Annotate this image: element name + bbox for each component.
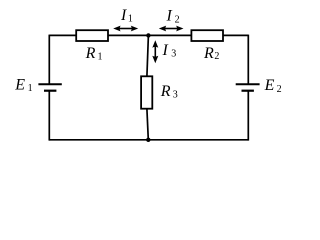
- node A (top center junction): [146, 33, 150, 37]
- svg-text:I: I: [120, 7, 127, 24]
- current arrow I3 (double-headed, vertical, center branch): [152, 40, 158, 63]
- node B (bottom center junction): [146, 138, 150, 142]
- wire: top side, center node to R2: [149, 34, 192, 36]
- svg-text:R: R: [203, 45, 214, 62]
- wire: center branch, node to R3: [147, 35, 149, 76]
- resistor R2: [191, 30, 223, 41]
- svg-text:I: I: [162, 42, 169, 59]
- battery E2 short plate: [242, 90, 254, 92]
- wire: left side, upper segment (corner to E1 plate): [48, 35, 50, 85]
- svg-text:3: 3: [171, 48, 176, 59]
- wire: right side, lower segment (E2 plate to bottom corner): [247, 91, 249, 141]
- svg-text:2: 2: [277, 84, 282, 95]
- svg-text:1: 1: [28, 83, 33, 94]
- wire: left side, lower segment (E1 plate to bottom corner): [48, 91, 50, 141]
- svg-text:I: I: [166, 8, 173, 25]
- svg-text:1: 1: [128, 14, 133, 25]
- wire: top side, R1 to center node: [108, 34, 149, 36]
- current arrow I2 (double-headed, above right of node): [159, 26, 184, 32]
- svg-text:R: R: [160, 83, 171, 100]
- wire: bottom side, left segment (corner to bottom node): [49, 139, 148, 141]
- svg-text:2: 2: [214, 51, 219, 62]
- battery E2 long plate: [236, 83, 260, 85]
- resistor R1: [76, 30, 108, 41]
- wire: right side, upper segment (corner to E2 plate): [247, 35, 249, 85]
- current arrow I1 (double-headed, above left of node): [113, 26, 138, 32]
- svg-text:E: E: [264, 77, 275, 94]
- resistor R3: [141, 76, 152, 108]
- battery E1 long plate: [38, 83, 61, 85]
- wire: top side, R2 to right corner: [223, 34, 249, 36]
- battery E1 short plate: [44, 90, 56, 92]
- wire: center branch, R3 to bottom node: [147, 109, 148, 140]
- wire: bottom side, right segment (bottom node to right corner): [148, 139, 248, 141]
- wire: top side, left segment (corner to R1): [49, 34, 76, 36]
- svg-text:2: 2: [175, 15, 180, 26]
- svg-text:R: R: [85, 45, 96, 62]
- svg-text:3: 3: [173, 90, 178, 101]
- svg-text:1: 1: [98, 52, 103, 63]
- svg-text:E: E: [14, 77, 25, 94]
